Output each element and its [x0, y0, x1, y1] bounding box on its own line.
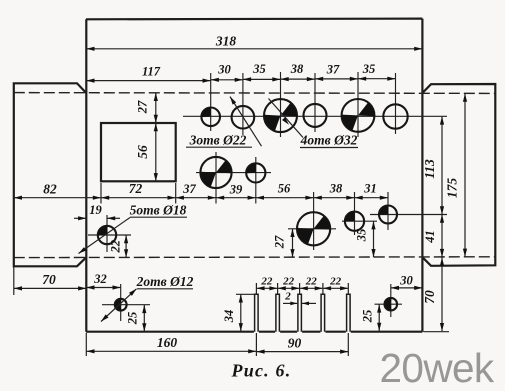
wire plate right edge: [421, 19, 423, 332]
dim 27 vertical at hole D1: [273, 229, 295, 257]
slot S3: [298, 294, 302, 331]
hole E2 d12 half-filled: [385, 298, 398, 311]
label 2otv d12 with leader: [101, 274, 194, 322]
svg-text:35: 35: [355, 229, 369, 243]
svg-text:56: 56: [135, 145, 150, 159]
svg-text:22: 22: [329, 276, 342, 288]
vertical centerline hole B2: [255, 157, 257, 204]
centerline hole E1: [102, 304, 150, 306]
vertical centerline hole B1: [215, 152, 217, 204]
slot S4: [321, 294, 325, 331]
svg-text:20wek: 20wek: [380, 345, 495, 391]
svg-text:38: 38: [329, 182, 343, 196]
svg-text:5отв Ø18: 5отв Ø18: [130, 203, 187, 218]
dim 27 vertical (rect top): [136, 93, 158, 123]
hole A5 d32 sector-filled: [342, 99, 375, 132]
svg-text:4отв Ø32: 4отв Ø32: [300, 133, 358, 148]
svg-text:22: 22: [109, 240, 123, 254]
svg-text:35: 35: [252, 62, 266, 76]
fold line top (dashed): [14, 92, 496, 95]
svg-text:22: 22: [260, 276, 273, 288]
svg-text:160: 160: [157, 335, 178, 350]
hole A2 d22 open: [232, 106, 255, 129]
hole A4 d22 open: [304, 104, 327, 127]
dim 25 left vertical: [126, 305, 147, 332]
dim row 82/72/37/39/56/38/31: [14, 183, 388, 204]
svg-text:70: 70: [422, 290, 437, 304]
svg-text:41: 41: [423, 230, 437, 244]
dim row 22x4 slots: [256, 283, 348, 294]
svg-text:2отв Ø12: 2отв Ø12: [136, 274, 194, 289]
svg-text:90: 90: [288, 336, 302, 351]
vertical centerline hole C1: [106, 215, 108, 252]
dim 30 right: [391, 274, 423, 291]
vertical centerline hole A2: [242, 73, 244, 135]
dim 70 left: [14, 267, 87, 295]
dim 160: [86, 333, 256, 356]
cutout rectangle 72x56: [101, 123, 176, 181]
vertical centerline hole A5: [357, 72, 359, 137]
label 4otv d32 with leader: [269, 99, 359, 148]
vertical centerline hole E2: [390, 284, 392, 317]
dim 90: [256, 333, 348, 356]
svg-text:3отв Ø22: 3отв Ø22: [189, 133, 247, 148]
svg-text:31: 31: [363, 182, 377, 196]
centerline hole D2: [342, 220, 377, 222]
dim 22 vertical at hole C1: [109, 235, 129, 257]
svg-text:30: 30: [399, 274, 413, 288]
svg-text:22: 22: [282, 276, 295, 288]
slot S2: [276, 294, 280, 331]
dim row 117/30/35/38/37/35: [86, 77, 395, 83]
hole C1 d18 quadrant-filled: [98, 226, 116, 244]
fold line bottom (dashed): [14, 256, 496, 259]
svg-text:37: 37: [182, 182, 196, 196]
vertical centerline hole A3: [280, 72, 282, 137]
vertical centerline hole E1: [120, 284, 122, 321]
hole B1 d32 sector-filled: [200, 157, 231, 188]
hole D3 d18 quadrant-filled: [379, 206, 397, 224]
vertical centerline hole A6: [395, 73, 397, 134]
svg-text:175: 175: [445, 178, 460, 199]
svg-text:113: 113: [422, 159, 437, 179]
wire plate left edge: [85, 19, 87, 331]
hole D2 d18 quadrant-filled: [345, 212, 364, 231]
hole E1 d12 half-filled: [115, 299, 127, 311]
centerline row B: [196, 172, 271, 174]
svg-text:37: 37: [326, 63, 340, 77]
vertical centerline hole A4: [314, 73, 316, 132]
centerline hole C1: [88, 234, 131, 236]
vertical centerline hole D2: [354, 192, 356, 235]
svg-text:34: 34: [222, 310, 236, 324]
dim 70 vertical right: [422, 258, 449, 332]
svg-text:27: 27: [273, 235, 287, 249]
hole A3 d32 sector-filled: [264, 99, 297, 132]
dim 56 vertical (rect height): [135, 123, 158, 181]
vertical centerline hole A1: [210, 73, 212, 131]
svg-text:35: 35: [362, 62, 376, 76]
dim 32: [86, 272, 120, 290]
dim 35 vertical at hole D2: [355, 221, 376, 257]
right wing outline: [422, 84, 495, 266]
wire plate top edge: [86, 18, 422, 21]
svg-text:27: 27: [136, 100, 150, 114]
svg-text:70: 70: [42, 272, 56, 287]
dim 41 vertical: [423, 215, 444, 258]
svg-text:32: 32: [93, 272, 107, 286]
centerline hole E2: [375, 303, 403, 305]
centerline row A: [183, 115, 447, 117]
slot S5: [347, 294, 351, 331]
dim 25 right vertical: [361, 304, 382, 331]
hole A1 d18 quadrant-filled: [201, 108, 220, 127]
svg-text:25: 25: [126, 312, 140, 326]
svg-text:72: 72: [129, 181, 143, 196]
vertical centerline hole D3: [387, 192, 389, 230]
svg-text:38: 38: [290, 62, 304, 76]
hole B2 d18 quadrant-filled: [246, 163, 265, 182]
svg-text:82: 82: [43, 182, 57, 197]
svg-text:39: 39: [229, 183, 243, 197]
dim 318: [86, 34, 422, 51]
svg-text:56: 56: [278, 182, 291, 196]
svg-text:25: 25: [361, 310, 375, 324]
svg-text:22: 22: [305, 276, 318, 288]
svg-text:Рис. 6.: Рис. 6.: [231, 361, 292, 381]
svg-text:30: 30: [217, 63, 231, 77]
wire plate bottom edge with slot openings: [86, 331, 422, 333]
dim 34 vertical: [222, 294, 254, 331]
dim 113 vertical: [422, 116, 444, 214]
hole A6 d22 open: [383, 104, 407, 128]
dim 2 slot width: [283, 291, 316, 306]
dim 175 vertical: [445, 94, 468, 257]
left wing outline: [14, 83, 86, 266]
svg-text:318: 318: [215, 34, 237, 49]
label 5otv d18 with leader: [79, 203, 188, 254]
dim 19: [74, 203, 120, 220]
label 3otv d22 with leader: [186, 97, 262, 148]
svg-text:19: 19: [89, 203, 102, 217]
hole D1 d32 sector-filled: [297, 212, 330, 245]
svg-text:117: 117: [142, 65, 161, 79]
slot S1: [255, 294, 259, 331]
centerline hole D3: [370, 214, 447, 216]
centerline hole D1: [288, 228, 336, 230]
svg-text:2: 2: [284, 291, 291, 303]
vertical centerline hole D1: [313, 192, 315, 250]
